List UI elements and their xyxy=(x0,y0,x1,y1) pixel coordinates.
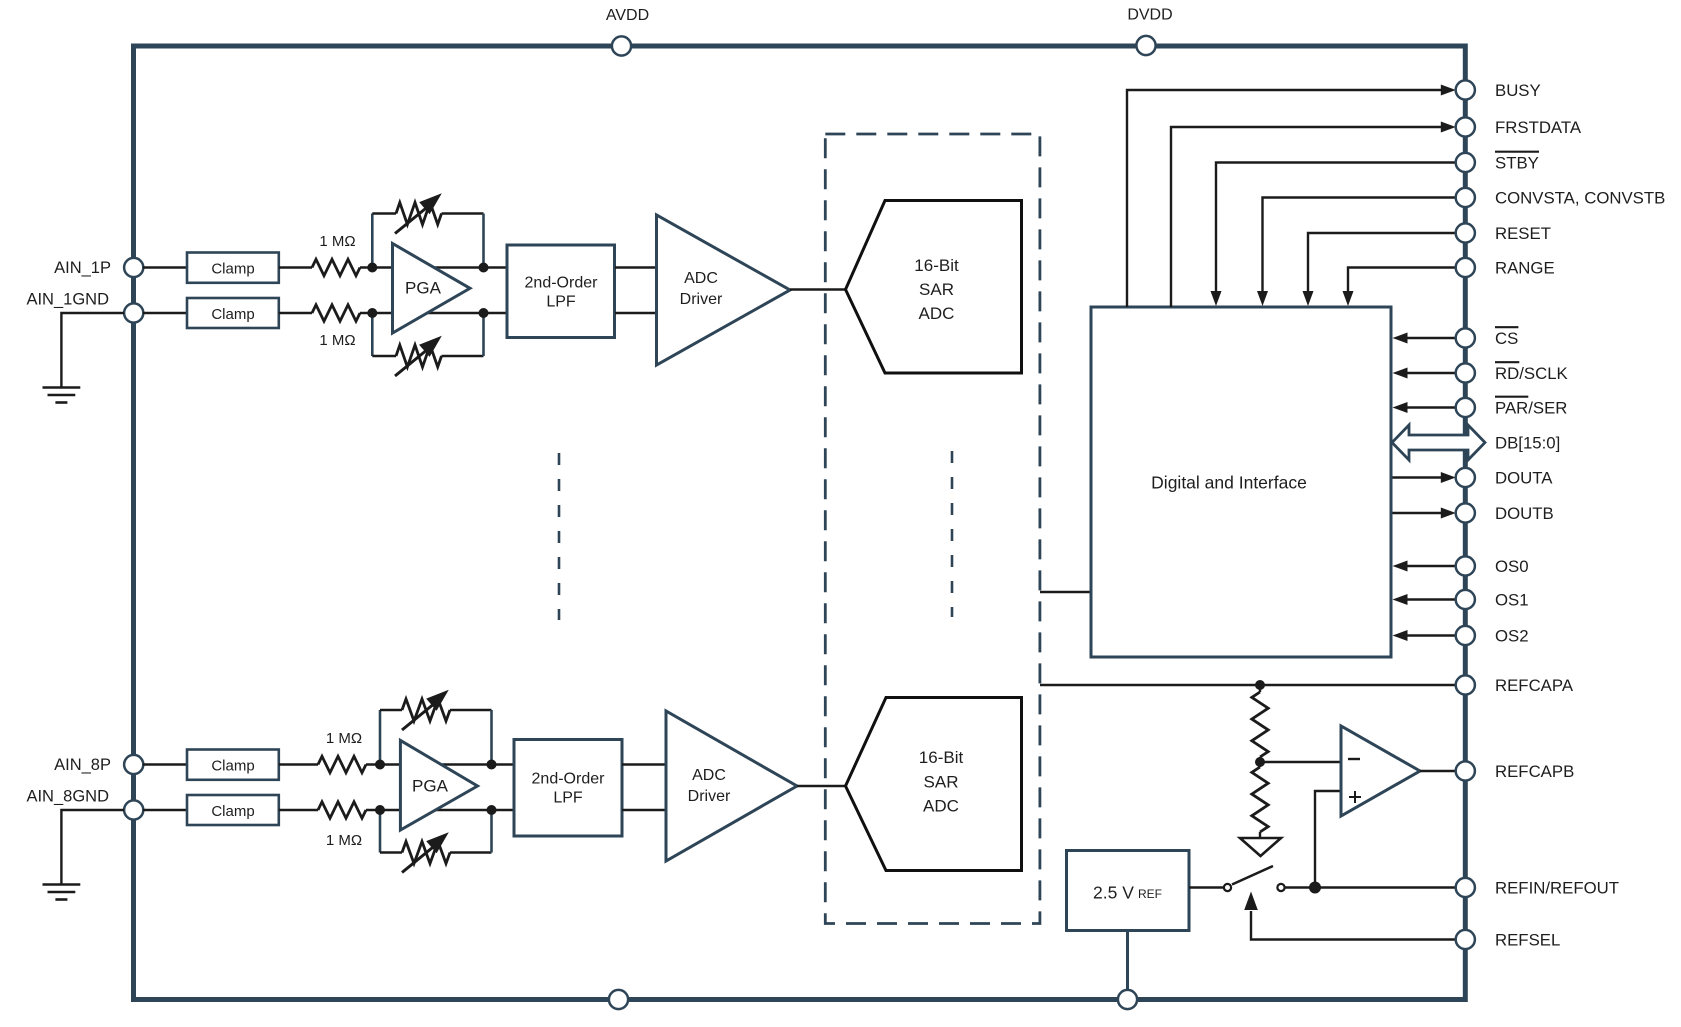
svg-text:16-Bit: 16-Bit xyxy=(919,748,964,767)
wire AIN_8GND to clamp xyxy=(143,809,188,811)
pin PAR/SER xyxy=(1456,397,1568,418)
op-amp PGA (ch8) xyxy=(400,740,477,830)
svg-text:PGA: PGA xyxy=(412,777,449,796)
pin CS xyxy=(1456,327,1519,348)
svg-text:STBY: STBY xyxy=(1495,153,1539,172)
ground arrow (ref divider) xyxy=(1240,838,1281,856)
node AIN_1P xyxy=(54,258,143,277)
resistor (upper, ref divider) xyxy=(1252,685,1268,762)
svg-text:AIN_1GND: AIN_1GND xyxy=(26,291,109,309)
svg-text:ADC: ADC xyxy=(923,797,959,816)
svg-text:AVDD: AVDD xyxy=(606,7,649,24)
svg-text:SAR: SAR xyxy=(919,280,954,299)
svg-text:Clamp: Clamp xyxy=(211,306,254,323)
resistor 1 MOhm (ch1 P) xyxy=(312,233,360,276)
DVDD pin xyxy=(1127,7,1172,56)
svg-text:1 MΩ: 1 MΩ xyxy=(326,730,362,747)
wire 2.5V REF to AGND pin xyxy=(1126,931,1129,992)
clamp block (ch1 P) xyxy=(187,253,279,283)
channel ellipsis dashed line (left) xyxy=(558,453,561,620)
svg-text:RESET: RESET xyxy=(1495,224,1551,243)
wire OS2 xyxy=(1393,630,1456,641)
variable resistor arrow (ch8 upper) xyxy=(402,690,449,730)
svg-text:Driver: Driver xyxy=(680,291,723,308)
pin DOUTA xyxy=(1456,468,1554,488)
junction node ref divider midpoint xyxy=(1255,757,1265,767)
svg-text:BUSY: BUSY xyxy=(1495,81,1541,100)
node AIN_1GND xyxy=(26,291,143,323)
svg-text:DB[15:0]: DB[15:0] xyxy=(1495,433,1560,452)
wire CONVSTA/CONVSTB xyxy=(1257,198,1456,307)
pin DOUTB xyxy=(1456,503,1554,523)
node AIN_8P xyxy=(54,755,143,774)
ground (channel 8) xyxy=(43,885,81,900)
bus DB[15:0] double arrow xyxy=(1392,425,1485,460)
wire clamp to resistor (ch8 GND) xyxy=(279,809,318,811)
feedback loop upper (ch8) xyxy=(380,699,492,765)
svg-text:OS0: OS0 xyxy=(1495,557,1529,576)
svg-text:CS: CS xyxy=(1495,329,1518,348)
junction dots ch1 xyxy=(367,263,488,319)
wire op-amp output to REFCAPB xyxy=(1420,770,1456,772)
channel ellipsis dashed line (inside ADC group) xyxy=(951,451,954,617)
wire LPF to ADC driver (ch1 GND) xyxy=(615,312,657,314)
feedback loop upper (ch1) xyxy=(372,203,483,268)
pin RESET xyxy=(1456,223,1551,243)
switch blade xyxy=(1232,866,1273,885)
switch contact right xyxy=(1277,884,1284,891)
wire RESET xyxy=(1303,233,1456,306)
svg-text:Clamp: Clamp xyxy=(211,758,254,775)
wire REFIN/REFOUT xyxy=(1285,886,1456,888)
wire 2.5V REF to switch xyxy=(1189,886,1224,888)
resistor 1 MOhm (ch8 GND) xyxy=(318,802,366,849)
svg-text:DOUTA: DOUTA xyxy=(1495,468,1553,487)
pin FRSTDATA xyxy=(1456,117,1582,136)
variable resistor arrow (ch8 lower) xyxy=(402,832,449,872)
clamp block (ch1 GND) xyxy=(187,298,279,328)
svg-text:DVDD: DVDD xyxy=(1127,7,1172,24)
junction node REFCAPA xyxy=(1255,680,1265,690)
pin OS1 xyxy=(1456,590,1529,610)
svg-text:Digital and Interface: Digital and Interface xyxy=(1151,473,1307,493)
pin OS2 xyxy=(1456,626,1529,646)
feedback loop lower (ch8) xyxy=(380,810,492,864)
Digital and Interface block xyxy=(1091,307,1391,657)
svg-text:LPF: LPF xyxy=(546,294,576,311)
wire resistor to LPF (ch8 P line) xyxy=(366,763,514,765)
pin OS0 xyxy=(1456,556,1529,576)
junction node REFIN xyxy=(1309,882,1321,894)
svg-text:ADC: ADC xyxy=(692,767,726,784)
wire REFSEL with actuate arrow xyxy=(1244,892,1456,940)
wire AIN_8GND to ground xyxy=(61,810,124,885)
switch contact left xyxy=(1224,884,1231,891)
2nd-Order LPF block (ch1) xyxy=(507,245,615,338)
feedback loop lower (ch1) xyxy=(372,313,483,367)
svg-text:2nd-Order: 2nd-Order xyxy=(532,771,606,788)
resistor 1 MOhm (ch1 GND) xyxy=(312,305,360,349)
wire DOUTA xyxy=(1393,472,1456,483)
svg-text:LPF: LPF xyxy=(553,790,583,807)
wire AIN_1P to clamp xyxy=(143,266,188,268)
ground (channel 1) xyxy=(43,388,81,403)
wire RD/SCLK xyxy=(1393,368,1456,379)
wire driver to SAR ADC (ch1) xyxy=(790,288,846,290)
wire OS0 xyxy=(1393,561,1456,572)
svg-text:Clamp: Clamp xyxy=(211,261,254,278)
wire clamp to resistor (ch1 P) xyxy=(279,266,312,268)
svg-text:1 MΩ: 1 MΩ xyxy=(319,332,355,349)
wire LPF to ADC driver (ch8 GND) xyxy=(622,809,667,811)
pin RANGE xyxy=(1456,258,1555,278)
svg-text:ADC: ADC xyxy=(684,270,718,287)
variable resistor arrow (ch1 upper) xyxy=(395,193,442,233)
wire clamp to resistor (ch8 P) xyxy=(279,763,318,765)
op-amp reference buffer xyxy=(1341,726,1420,816)
node AIN_8GND xyxy=(26,788,143,820)
AVDD pin xyxy=(606,7,649,56)
svg-text:Driver: Driver xyxy=(688,788,731,805)
svg-text:REFCAPA: REFCAPA xyxy=(1495,676,1574,695)
wire op-amp noninverting input xyxy=(1315,791,1341,888)
wire STBY xyxy=(1211,163,1456,307)
wire resistor to LPF (ch1 P line) xyxy=(360,266,507,268)
svg-text:OS1: OS1 xyxy=(1495,590,1529,609)
device boundary xyxy=(134,46,1466,1000)
svg-text:2nd-Order: 2nd-Order xyxy=(525,275,599,292)
wire resistor to LPF (ch8 GND line) xyxy=(366,809,514,811)
svg-text:REF: REF xyxy=(1138,887,1162,901)
16-Bit SAR ADC (ch1) xyxy=(846,201,1022,374)
svg-text:AIN_8GND: AIN_8GND xyxy=(26,788,109,806)
wire ADC group to digital block xyxy=(1040,591,1091,593)
op-amp PGA (ch1) xyxy=(393,244,471,334)
svg-text:REFCAPB: REFCAPB xyxy=(1495,762,1574,781)
wire FRSTDATA xyxy=(1171,122,1456,308)
wire divider midpoint to op-amp inverting input xyxy=(1260,761,1341,763)
op-amp ADC Driver (ch1) xyxy=(657,215,791,365)
clamp block (ch8 GND) xyxy=(187,795,279,825)
16-Bit SAR ADC (ch8) xyxy=(846,698,1022,871)
wire PAR/SER xyxy=(1393,402,1456,413)
wire REFCAPA xyxy=(1040,684,1456,686)
svg-text:OS2: OS2 xyxy=(1495,626,1529,645)
svg-text:PGA: PGA xyxy=(405,279,442,298)
wire DOUTB xyxy=(1393,508,1456,519)
svg-text:1 MΩ: 1 MΩ xyxy=(326,832,362,849)
svg-text:AIN_1P: AIN_1P xyxy=(54,259,111,277)
AGND pin (bottom) xyxy=(609,990,628,1009)
wire CS xyxy=(1393,333,1456,344)
pin RD/SCLK xyxy=(1456,362,1568,383)
pin DB[15:0] xyxy=(1495,433,1560,452)
svg-text:Clamp: Clamp xyxy=(211,803,254,820)
pin REFIN/REFOUT xyxy=(1456,878,1619,898)
wire AIN_8P to clamp xyxy=(143,763,188,765)
pin STBY xyxy=(1456,152,1539,173)
svg-text:FRSTDATA: FRSTDATA xyxy=(1495,118,1582,137)
dashed ADC group box xyxy=(825,134,1040,924)
svg-text:ADC: ADC xyxy=(919,304,955,323)
wire OS1 xyxy=(1393,594,1456,605)
wire RANGE xyxy=(1343,268,1456,307)
DGND pin (bottom) xyxy=(1118,990,1137,1009)
wire clamp to resistor (ch1 GND) xyxy=(279,312,312,314)
2.5 V REF block xyxy=(1067,851,1190,931)
wire AIN_1GND to ground xyxy=(61,313,124,388)
svg-text:DOUTB: DOUTB xyxy=(1495,504,1554,523)
pin REFCAPA xyxy=(1456,675,1574,695)
wire AIN_1GND to clamp xyxy=(143,312,188,314)
wire resistor to LPF (ch1 GND line) xyxy=(360,312,507,314)
svg-text:PAR/SER: PAR/SER xyxy=(1495,398,1567,417)
op-amp ADC Driver (ch8) xyxy=(666,711,797,861)
clamp block (ch8 P) xyxy=(187,750,279,780)
junction dots ch8 xyxy=(375,760,497,816)
resistor (lower, ref divider) xyxy=(1252,762,1268,838)
pin CONVSTA, CONVSTB xyxy=(1456,188,1666,208)
wire BUSY xyxy=(1127,85,1456,308)
svg-text:REFSEL: REFSEL xyxy=(1495,930,1560,949)
svg-text:AIN_8P: AIN_8P xyxy=(54,756,111,774)
wire LPF to ADC driver (ch1 P) xyxy=(615,266,657,268)
pin REFCAPB xyxy=(1456,761,1575,781)
pin BUSY xyxy=(1456,80,1541,100)
svg-text:RD/SCLK: RD/SCLK xyxy=(1495,364,1568,383)
svg-text:REFIN/REFOUT: REFIN/REFOUT xyxy=(1495,878,1619,897)
svg-text:SAR: SAR xyxy=(924,773,959,792)
wire driver to SAR ADC (ch8) xyxy=(797,785,846,787)
2nd-Order LPF block (ch8) xyxy=(514,740,622,837)
wire LPF to ADC driver (ch8 P) xyxy=(622,763,667,765)
svg-text:1 MΩ: 1 MΩ xyxy=(319,233,355,250)
variable resistor arrow (ch1 lower) xyxy=(395,336,442,376)
resistor 1 MOhm (ch8 P) xyxy=(318,730,366,773)
svg-text:16-Bit: 16-Bit xyxy=(914,256,959,275)
pin REFSEL xyxy=(1456,930,1561,950)
svg-text:2.5 V: 2.5 V xyxy=(1093,883,1134,903)
svg-text:CONVSTA, CONVSTB: CONVSTA, CONVSTB xyxy=(1495,188,1665,207)
svg-text:RANGE: RANGE xyxy=(1495,258,1555,277)
